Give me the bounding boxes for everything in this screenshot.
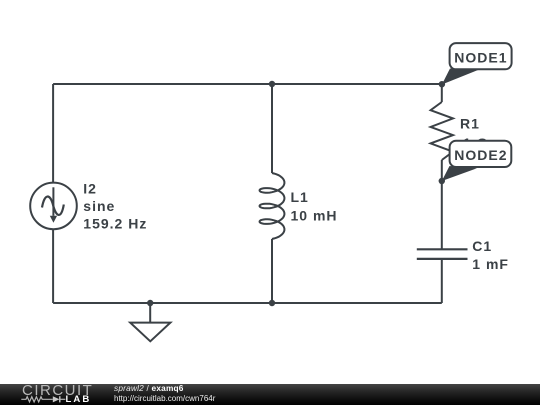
wire left vertical lower [52,229,54,303]
logo squiggle and diode [20,394,90,404]
label L1 name and value [291,189,338,224]
ground symbol [130,303,170,341]
svg-text:159.2 Hz: 159.2 Hz [83,216,147,232]
footer bar [0,384,540,405]
svg-text:10 mH: 10 mH [291,208,338,224]
footer url text [114,394,215,403]
wire right vertical capacitor-to-bottom [441,259,443,303]
wire middle vertical lower [271,239,273,303]
wire middle vertical upper [271,84,273,173]
svg-text:NODE2: NODE2 [454,147,507,163]
callout NODE1 [442,43,512,84]
svg-text:1 mF: 1 mF [472,256,509,272]
wire right vertical node2-to-capacitor [441,181,443,249]
svg-text:C1: C1 [472,238,492,254]
logo CIRCUIT text [22,382,93,399]
svg-text:NODE1: NODE1 [454,50,507,66]
label I2 name and value [83,181,147,232]
wire right vertical upper [441,84,443,102]
node dot NODE2 [439,178,445,184]
svg-text:I2: I2 [83,181,97,197]
inductor L1 [260,173,285,239]
resistor R1 [431,102,453,160]
label C1 name and value [472,238,509,272]
wire top horizontal [53,83,442,85]
node dot NODE1 [439,81,445,87]
junction dot top middle [269,81,275,87]
capacitor C1 [417,249,468,259]
svg-text:L1: L1 [291,189,309,205]
logo LAB text [66,394,92,405]
current source I2 circle [30,183,77,230]
callout NODE2 [442,141,512,181]
footer title text [114,383,184,393]
wire left vertical upper [52,84,54,183]
svg-text:R1: R1 [460,116,480,132]
wire right vertical resistor-to-node2 [441,160,443,181]
junction dot bottom middle [269,300,275,306]
wire bottom horizontal [53,302,442,304]
junction dot ground [147,300,153,306]
svg-text:sine: sine [83,198,115,214]
